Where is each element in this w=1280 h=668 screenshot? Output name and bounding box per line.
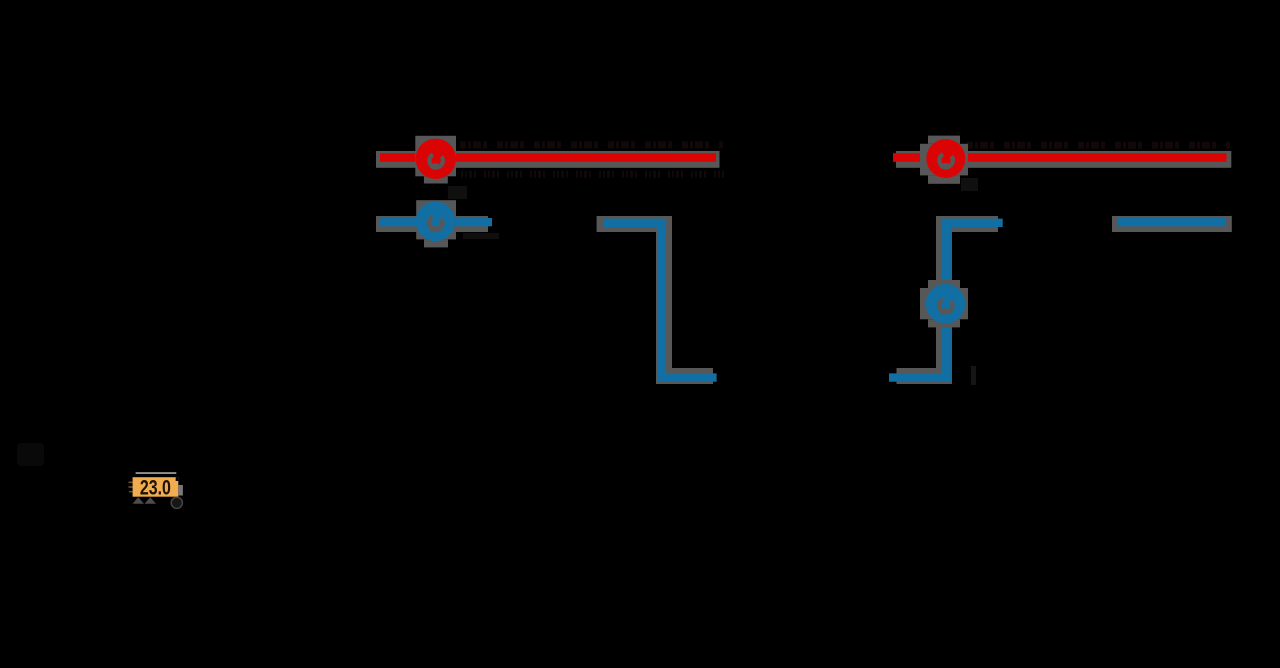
temperature label 23.0 orange box	[133, 477, 179, 497]
wire red supply left: red core	[380, 153, 716, 162]
pump P4 glyph	[939, 300, 953, 315]
pump P4 blue rotor disc	[926, 284, 966, 324]
svg-text:23.0: 23.0	[140, 476, 171, 500]
orange box top-right notch	[176, 477, 179, 481]
faint label smudge below pump P1	[448, 186, 467, 199]
pump P2 (blue, left) gray mount square	[416, 200, 456, 247]
wire blue right S: blue core	[889, 219, 1003, 382]
pump P4 (blue, right) gray stepped mount	[920, 280, 968, 327]
faint label smudge right of pump P2	[463, 233, 499, 239]
wire red supply right: gray outline band	[896, 151, 1231, 168]
faint ghost text row below left red pipe	[461, 171, 724, 178]
dark dial circle below label	[171, 497, 182, 508]
pump P2 blue rotor disc	[416, 202, 456, 242]
faint ghost text row above right red pipe	[967, 142, 1230, 149]
pump P3 glyph	[939, 154, 953, 169]
wire blue return right segment: blue core	[1118, 218, 1226, 226]
wire red supply right: red core	[893, 153, 1227, 162]
faint house icon blob left of label	[17, 443, 44, 466]
pump P1 red rotor disc	[416, 139, 456, 179]
wire blue right S: gray outline band	[897, 216, 999, 384]
pump P3 red rotor disc	[926, 139, 965, 178]
faint ghost text row above left red pipe	[460, 141, 723, 148]
pump P2 glyph	[429, 217, 443, 232]
faint bar below right blue pump	[971, 366, 976, 385]
wire blue left Z: gray outline band	[597, 216, 713, 384]
wire blue return right segment: gray outline band	[1112, 216, 1232, 232]
temperature label gray side tab	[178, 485, 183, 496]
light gray line above temperature label	[136, 472, 177, 474]
wire blue return left stub: blue core	[380, 218, 492, 226]
pump P3 (red, right) gray stepped mount	[920, 136, 968, 184]
gray up arrow 2 below label	[145, 497, 157, 504]
faint label smudge below right red pump P3	[961, 178, 978, 191]
pump P1 (red, left) gray mount square	[415, 136, 456, 184]
wire blue return left stub: gray outline band	[376, 216, 488, 232]
wire blue left Z: blue core	[603, 219, 717, 382]
label left edge dashes	[129, 482, 133, 493]
pump P1 glyph	[429, 155, 443, 170]
gray up arrow 1 below label	[133, 497, 145, 504]
wire red supply left: gray outline band	[376, 151, 720, 168]
